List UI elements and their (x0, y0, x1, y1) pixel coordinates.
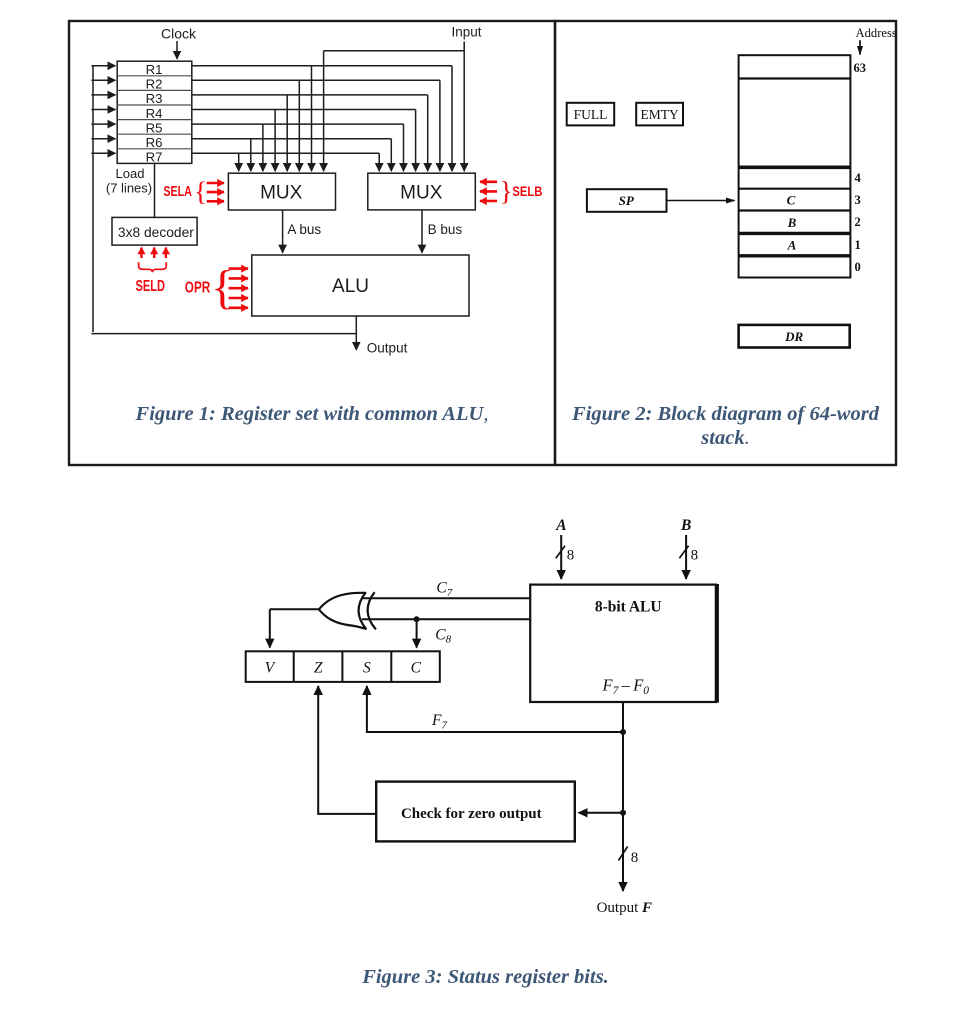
slash output bus width (619, 847, 628, 861)
svg-text:R6: R6 (146, 135, 163, 150)
figure 1 border frame (69, 21, 555, 465)
svg-text:R5: R5 (146, 120, 163, 135)
svg-text:S: S (363, 660, 371, 677)
block ALU (252, 255, 469, 316)
svg-text:MUX: MUX (260, 182, 303, 203)
svg-text:OPR: OPR (185, 279, 211, 296)
wire load arrow R1 (91, 65, 115, 67)
svg-text:R4: R4 (146, 106, 163, 121)
wire R4 to MUX A (274, 110, 276, 172)
wire R6 bus (192, 138, 391, 140)
wire load arrow R3 (91, 94, 115, 96)
slash A bus width (556, 546, 565, 558)
wire R5 bus (192, 123, 404, 125)
wire B bus (421, 210, 423, 253)
label Load (7 lines) (106, 166, 152, 196)
wire SP to stack (667, 200, 735, 202)
wire SELD arrow 1 (140, 248, 142, 259)
svg-text:8: 8 (567, 547, 575, 563)
svg-text:C: C (787, 193, 796, 208)
block DR register (739, 325, 850, 348)
svg-text:C: C (411, 660, 422, 677)
wire load arrow R5 (91, 123, 115, 125)
wire ALU output F (622, 702, 624, 891)
svg-text:Address: Address (856, 26, 897, 40)
label SELA (163, 175, 207, 206)
svg-text:F7: F7 (431, 712, 447, 731)
svg-text:R1: R1 (146, 62, 163, 77)
svg-text:Load: Load (116, 166, 145, 181)
svg-text:SP: SP (619, 193, 635, 208)
caption figure 3 (0, 965, 971, 989)
svg-text:B: B (787, 215, 797, 230)
svg-text:DR: DR (784, 329, 803, 344)
caption figure 2 (555, 402, 896, 450)
wire OPR arrow 1 (229, 267, 248, 270)
svg-text:1: 1 (855, 238, 861, 252)
svg-text:8-bit ALU: 8-bit ALU (595, 598, 662, 615)
wire R7 to MUX A (238, 153, 240, 171)
svg-text:Z: Z (314, 660, 323, 677)
wire C8 from ALU to XOR (362, 618, 530, 620)
svg-text:2: 2 (855, 215, 861, 229)
block status register VZSC (246, 651, 440, 682)
svg-text:B bus: B bus (428, 222, 463, 237)
slash B bus width (679, 546, 688, 558)
wire Input to MUX B (463, 42, 465, 172)
block EMTY flag (636, 103, 683, 126)
wire R4 bus (192, 109, 416, 111)
block 3x8 decoder (112, 217, 197, 245)
svg-text:0: 0 (855, 260, 861, 274)
wire R7 to MUX B (378, 153, 380, 171)
wire load arrow R2 (91, 79, 115, 81)
wire SELA arrow 2 (207, 191, 224, 194)
svg-text:SELB: SELB (512, 183, 542, 199)
wire SELB arrow 3 (480, 200, 497, 203)
svg-text:C8: C8 (435, 626, 451, 645)
svg-text:R3: R3 (146, 91, 163, 106)
svg-text:A bus: A bus (287, 222, 321, 237)
gate XOR overflow (319, 592, 376, 629)
wire OPR arrow 3 (229, 287, 248, 290)
wire A to ALU (560, 535, 562, 579)
wire load feedback vertical (92, 66, 94, 332)
wire OPR arrow 5 (229, 306, 248, 309)
wire R1 bus (192, 65, 452, 67)
wire R2 to MUX B (439, 80, 441, 171)
wire R5 to MUX B (403, 124, 405, 171)
svg-text:3: 3 (855, 193, 861, 207)
wire Input branch (324, 50, 465, 52)
wire output to zero check (579, 812, 624, 814)
svg-text:Output: Output (367, 340, 408, 355)
wire F7 to S flag (367, 694, 623, 732)
wire Clock to register block (176, 41, 178, 59)
wire R1 to MUX A (311, 66, 313, 171)
caption figure 1 (69, 402, 555, 426)
svg-text:8: 8 (691, 547, 699, 563)
wire R3 bus (192, 94, 428, 96)
wire SELD arrow 2 (153, 248, 155, 259)
svg-text:}: } (500, 175, 513, 206)
svg-text:C7: C7 (436, 580, 452, 599)
block SP stack pointer (587, 189, 667, 212)
svg-text:63: 63 (854, 61, 867, 75)
block FULL flag (567, 103, 615, 126)
svg-text:A: A (555, 517, 566, 534)
wire R4 to MUX B (415, 110, 417, 172)
block check for zero output (376, 782, 575, 842)
wire ALU output (355, 316, 357, 350)
svg-text:SELA: SELA (163, 184, 192, 200)
svg-text:4: 4 (855, 171, 862, 185)
svg-text:F7 – F0: F7 – F0 (602, 676, 650, 698)
wire load arrow R6 (91, 138, 115, 140)
wire R7 bus (192, 152, 379, 154)
wire R5 to MUX A (262, 124, 264, 171)
wire SELD arrow 3 (165, 248, 167, 259)
svg-text:V: V (265, 660, 276, 677)
svg-text:Input: Input (451, 25, 481, 40)
block stack memory (739, 55, 851, 277)
wire register to decoder (154, 163, 156, 217)
svg-text:Clock: Clock (161, 25, 197, 41)
register block R1-R7 (117, 61, 192, 164)
wire OPR arrow 2 (229, 277, 248, 280)
wire zero check to Z flag (318, 694, 376, 814)
wire C7 from ALU to XOR (362, 597, 530, 599)
wire R6 to MUX A (250, 139, 252, 172)
svg-text:FULL: FULL (574, 107, 608, 122)
svg-text:(7 lines): (7 lines) (106, 181, 152, 196)
wire SELB arrow 1 (480, 181, 497, 184)
svg-text:Check for zero output: Check for zero output (401, 806, 542, 822)
node junction F7 (620, 729, 626, 735)
wire XOR output to V flag (270, 608, 319, 610)
svg-text:ALU: ALU (332, 276, 369, 297)
block 8-bit ALU (530, 584, 717, 703)
brace under SELD arrows (139, 262, 167, 272)
svg-text:MUX: MUX (400, 182, 443, 203)
figure 2 border frame (555, 21, 896, 465)
block MUX B (368, 173, 476, 210)
wire R6 to MUX B (390, 139, 392, 172)
svg-text:EMTY: EMTY (640, 107, 678, 122)
node junction output to zero check (620, 810, 626, 816)
svg-text:SELD: SELD (136, 278, 166, 295)
wire SELA arrow 3 (207, 200, 224, 203)
wire R3 to MUX A (286, 95, 288, 171)
wire output feedback (91, 333, 356, 335)
wire R2 bus (192, 79, 440, 81)
block MUX A (228, 173, 335, 210)
svg-text:A: A (787, 238, 797, 253)
label SELB (500, 175, 543, 206)
svg-text:R7: R7 (146, 150, 163, 165)
svg-text:3x8 decoder: 3x8 decoder (118, 225, 194, 240)
wire C8 to C flag (416, 619, 418, 647)
wire R1 to MUX B (451, 66, 453, 171)
wire load arrow R4 (91, 109, 115, 111)
wire R2 to MUX A (298, 80, 300, 171)
wire Input to MUX A (323, 51, 325, 171)
label OPR (185, 261, 234, 314)
wire R3 to MUX B (427, 95, 429, 171)
svg-text:8: 8 (631, 850, 639, 866)
wire OPR arrow 4 (229, 297, 248, 300)
svg-text:B: B (680, 517, 691, 534)
wire load arrow R7 (91, 152, 115, 154)
svg-text:Output F: Output F (597, 900, 652, 916)
node junction C8 (414, 616, 420, 622)
wire SELB arrow 2 (480, 190, 497, 193)
wire SELA arrow 1 (207, 182, 224, 185)
wire address arrow (859, 40, 861, 54)
wire B to ALU (685, 535, 687, 579)
wire A bus (282, 210, 284, 253)
svg-text:R2: R2 (146, 77, 163, 92)
svg-text:{: { (194, 175, 207, 206)
